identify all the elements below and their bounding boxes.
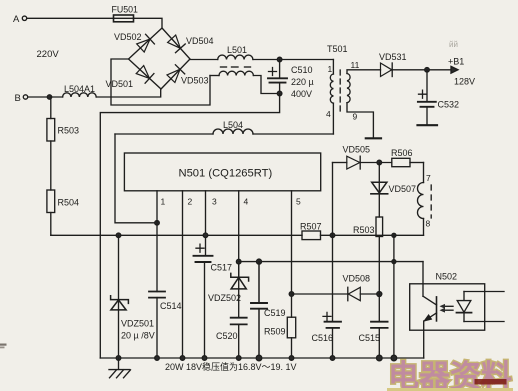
capacitor C514 xyxy=(149,292,182,359)
diode VD531 xyxy=(379,52,407,77)
svg-text:T501: T501 xyxy=(327,44,348,54)
diode VD503 xyxy=(167,65,209,86)
terminal B xyxy=(15,93,28,104)
inductor L504 xyxy=(115,120,333,134)
wire winding8 to rail xyxy=(393,235,395,358)
resistor R507 xyxy=(300,222,322,240)
wire A to fuse xyxy=(27,17,113,19)
ground under T501 pin9 xyxy=(366,137,381,139)
watermark 电器资料 xyxy=(387,359,513,391)
svg-text:+B1: +B1 xyxy=(448,57,464,67)
node winding8 rail262 xyxy=(392,260,396,264)
node B junction xyxy=(47,95,51,99)
winding 7-8 xyxy=(418,163,432,236)
svg-text:R503: R503 xyxy=(58,126,80,136)
svg-text:4: 4 xyxy=(326,109,331,119)
svg-text:VDZ501: VDZ501 xyxy=(121,319,154,329)
node VD508 right xyxy=(377,292,382,297)
svg-text:L501: L501 xyxy=(227,45,247,55)
transformer T501 secondary xyxy=(347,60,381,138)
svg-text:йй: йй xyxy=(449,40,458,49)
node pin3 rail xyxy=(203,233,208,238)
wire bridge plus to L501 xyxy=(190,59,218,61)
N502 LED xyxy=(457,292,472,322)
svg-text:N502: N502 xyxy=(436,272,458,282)
inductor L504A1 xyxy=(63,84,97,97)
node bottom C514 xyxy=(155,356,160,361)
node winding8 column rail xyxy=(392,233,396,237)
zener VDZ502 xyxy=(208,262,249,318)
svg-text:5: 5 xyxy=(296,197,301,207)
node bottom C515 xyxy=(377,355,383,361)
fuse FU501 xyxy=(112,5,139,22)
svg-text:C532: C532 xyxy=(438,100,460,110)
svg-text:9: 9 xyxy=(353,112,358,122)
node C532 top xyxy=(425,68,430,73)
svg-text:R503: R503 xyxy=(353,225,375,235)
node bottom R509 xyxy=(289,356,294,361)
svg-text:VD507: VD507 xyxy=(389,184,417,194)
node bottom C517 xyxy=(202,356,207,361)
svg-text:VD531: VD531 xyxy=(379,52,407,62)
bridge diamond wires xyxy=(129,28,191,89)
wire fuse to bridge top xyxy=(134,18,163,28)
svg-text:R509: R509 xyxy=(264,327,286,337)
zener VD507 xyxy=(371,163,416,218)
svg-text:20 µ /8V: 20 µ /8V xyxy=(121,331,155,341)
svg-text:1: 1 xyxy=(328,64,333,74)
N502 light arrows xyxy=(440,304,454,313)
wire bridge minus loop xyxy=(111,59,210,105)
svg-text:R507: R507 xyxy=(300,222,322,232)
capacitor C515 xyxy=(359,294,388,358)
resistor R509 xyxy=(264,317,296,358)
transformer T501 primary xyxy=(326,44,348,134)
node bottom VDZ501 xyxy=(116,356,121,361)
pin 3 lead xyxy=(206,191,218,256)
chassis ground symbol xyxy=(109,358,131,378)
capacitor C516 xyxy=(312,312,342,358)
svg-text:L504A1: L504A1 xyxy=(64,84,95,94)
svg-text:4: 4 xyxy=(244,197,249,207)
node top rail / C510 xyxy=(277,57,282,62)
wire L504A1 to bridge bottom xyxy=(96,89,161,97)
diode VD504 xyxy=(168,35,214,53)
svg-text:B: B xyxy=(15,93,21,104)
ground under C532 xyxy=(418,124,438,126)
wire DC minus down-left rail xyxy=(100,94,279,359)
svg-text:220 µ: 220 µ xyxy=(291,77,314,87)
capacitor C532 xyxy=(418,70,459,125)
capacitor C519 xyxy=(251,262,286,358)
svg-text:VD503: VD503 xyxy=(181,76,209,86)
T501 core xyxy=(339,70,341,112)
wire L504 left leg to pin1 xyxy=(115,134,157,223)
svg-text:11: 11 xyxy=(351,60,360,70)
diode VD505 xyxy=(333,145,392,170)
node C510 bottom xyxy=(277,91,282,96)
diode VD508 xyxy=(343,274,380,301)
winding 7-8 core xyxy=(430,185,432,218)
svg-text:C516: C516 xyxy=(312,333,334,343)
resistor R506 xyxy=(391,148,424,167)
svg-text:R504: R504 xyxy=(58,198,80,208)
L501 core dashes xyxy=(221,66,251,68)
svg-text:VD504: VD504 xyxy=(186,36,214,46)
inductor L501 top winding xyxy=(218,45,253,60)
N502 phototransistor xyxy=(423,296,437,358)
pin 5 lead xyxy=(292,191,302,317)
diode VD502 xyxy=(114,32,154,52)
svg-text:7: 7 xyxy=(426,173,431,183)
capacitor C510 xyxy=(268,60,314,100)
terminal A xyxy=(13,14,27,25)
node VD505 cathode xyxy=(377,160,382,165)
node bottom winding8 xyxy=(391,355,397,361)
svg-text:220V: 220V xyxy=(37,49,60,60)
diode VD501 xyxy=(106,66,154,89)
svg-text:3: 3 xyxy=(212,197,217,207)
wire VD531 to +B1 xyxy=(392,69,452,71)
node bottom pin2 xyxy=(180,356,185,361)
node bottom C519 xyxy=(256,355,262,361)
horizontal rail y=262 xyxy=(239,261,423,263)
svg-text:400V: 400V xyxy=(291,89,312,99)
node VDZ501 top xyxy=(116,233,121,238)
pin 1 lead xyxy=(157,191,166,292)
svg-text:C514: C514 xyxy=(160,301,182,311)
wire B to L504A1 xyxy=(28,96,63,98)
N502 output wires xyxy=(464,292,504,322)
wire R504 to rail xyxy=(50,213,53,236)
pin 2 lead xyxy=(183,191,193,358)
node R509 VD508 xyxy=(289,292,294,297)
resistor R503 (right) xyxy=(353,217,383,294)
node rail262 left end xyxy=(236,259,241,264)
horizontal rail y=235 xyxy=(51,234,424,236)
svg-text:L504: L504 xyxy=(223,120,243,130)
node C519 top xyxy=(257,259,262,264)
svg-text:VDZ502: VDZ502 xyxy=(208,293,241,303)
node pin1 junction xyxy=(155,221,160,226)
svg-text:VD508: VD508 xyxy=(343,274,371,284)
svg-text:C510: C510 xyxy=(291,65,313,75)
svg-text:N501 (CQ1265RT): N501 (CQ1265RT) xyxy=(179,168,273,180)
svg-text:C515: C515 xyxy=(359,333,381,343)
resistor R503 (left) xyxy=(47,97,79,141)
left edge red specks xyxy=(0,344,7,349)
svg-text:1: 1 xyxy=(161,197,166,207)
svg-text:8: 8 xyxy=(426,219,431,229)
wire L501 bottom to C510 bottom node xyxy=(253,76,279,94)
svg-text:A: A xyxy=(13,14,20,25)
svg-text:FU501: FU501 xyxy=(112,5,139,15)
svg-text:C520: C520 xyxy=(216,331,238,341)
optocoupler N502 box xyxy=(410,272,485,331)
wire L501 top rail to T501 xyxy=(253,59,333,61)
zener VDZ501 xyxy=(111,235,155,358)
svg-text:20W 18V稳压值为16.8V～19. 1V: 20W 18V稳压值为16.8V～19. 1V xyxy=(165,361,297,372)
+B1 output arrow xyxy=(448,57,475,87)
svg-text:C517: C517 xyxy=(211,263,233,273)
svg-text:VD502: VD502 xyxy=(114,32,142,42)
svg-text:电器资料: 电器资料 xyxy=(388,359,512,391)
wire VD508 left xyxy=(292,293,348,295)
node VD505 column rail xyxy=(330,233,335,238)
svg-text:VD501: VD501 xyxy=(106,79,134,89)
node bottom C520 xyxy=(236,356,241,361)
svg-text:C519: C519 xyxy=(264,308,286,318)
svg-text:2: 2 xyxy=(188,197,193,207)
resistor R504 xyxy=(47,141,79,213)
capacitor C517 xyxy=(194,244,233,358)
wire rail262 into N502 xyxy=(422,262,424,297)
wire VD505 column xyxy=(332,163,334,322)
node bottom C516 xyxy=(330,356,335,361)
svg-text:VD505: VD505 xyxy=(343,145,371,155)
bottom ground rail xyxy=(100,357,423,359)
pin 4 lead xyxy=(239,191,249,276)
IC N501 box xyxy=(124,153,320,191)
svg-text:R506: R506 xyxy=(391,148,413,158)
svg-text:128V: 128V xyxy=(454,77,475,87)
inductor L501 bottom winding xyxy=(210,71,253,75)
capacitor C520 xyxy=(216,318,247,358)
